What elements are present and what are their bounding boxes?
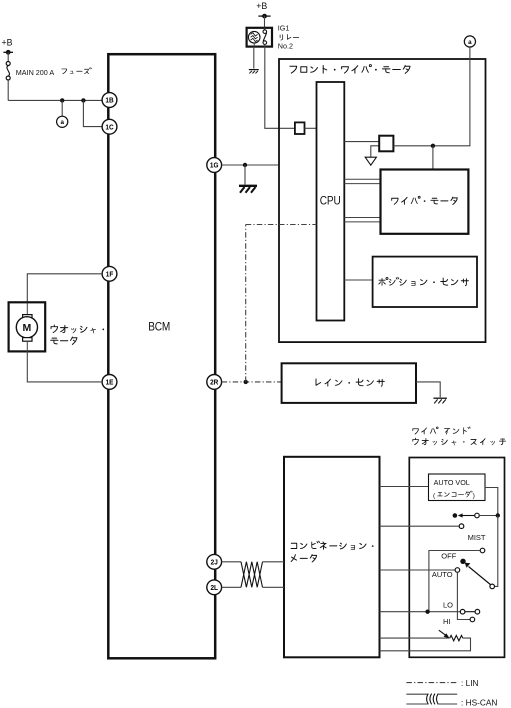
svg-text:1G: 1G xyxy=(210,162,219,169)
pin 1C xyxy=(102,119,117,134)
svg-text:2J: 2J xyxy=(211,559,218,566)
wire (AUTO to HI) xyxy=(457,572,470,619)
relay IG1 No.2 xyxy=(247,28,272,47)
svg-text:AUTO: AUTO xyxy=(432,570,453,579)
front wiper motor box xyxy=(279,59,486,342)
svg-text:HI: HI xyxy=(443,617,451,626)
svg-text:M: M xyxy=(23,322,32,334)
wire (to wiper motor) xyxy=(432,146,434,170)
pin 2J xyxy=(207,554,222,569)
svg-text:2R: 2R xyxy=(210,379,218,386)
wire (motor to 1E) xyxy=(26,341,28,351)
washer motor box xyxy=(9,302,46,351)
driver square xyxy=(379,136,393,152)
position sensor box xyxy=(373,257,477,307)
svg-text:1F: 1F xyxy=(106,271,114,278)
legend LIN xyxy=(406,682,456,684)
wire (CPU to position sensor) xyxy=(344,279,372,281)
LIN wire (2R to rain sensor, dash-dot) xyxy=(222,381,282,383)
combination meter box xyxy=(284,457,380,658)
svg-text:1C: 1C xyxy=(105,124,113,131)
CPU box xyxy=(317,82,345,321)
pin 1E xyxy=(102,375,117,390)
AUTO VOL encoder box xyxy=(429,474,486,501)
wire xyxy=(61,100,63,116)
rotary switch common + lever xyxy=(460,559,465,564)
wire xyxy=(7,80,9,100)
pin 1G xyxy=(207,158,222,173)
wire (bus down to lever) xyxy=(495,516,498,587)
fuse MAIN 200 A xyxy=(6,62,10,66)
switch box xyxy=(409,458,504,658)
wire (CPU to driver square) xyxy=(344,141,379,143)
node a (top right) xyxy=(464,36,475,47)
pin 1F xyxy=(102,266,117,281)
wire xyxy=(264,16,266,28)
connector square (relay input) xyxy=(295,122,305,134)
svg-text:1B: 1B xyxy=(105,97,113,104)
ground (relay coil) xyxy=(249,69,259,71)
wire xyxy=(244,165,246,185)
svg-text:CPU: CPU xyxy=(320,195,341,208)
MIST momentary switch xyxy=(453,513,458,518)
svg-text:a: a xyxy=(468,39,472,46)
wire (rain sensor ground) xyxy=(416,382,440,397)
wire (AUTO VOL to bus) xyxy=(485,488,498,516)
svg-text:a: a xyxy=(60,119,64,126)
node junction dots xyxy=(60,98,64,102)
svg-text:AUTO VOL: AUTO VOL xyxy=(434,478,470,487)
svg-text:MAIN 200 A: MAIN 200 A xyxy=(16,68,55,77)
wire (1F to washer motor) xyxy=(27,274,102,303)
svg-text:+B: +B xyxy=(2,38,13,48)
svg-text:MIST: MIST xyxy=(468,533,486,542)
node junction xyxy=(243,163,247,167)
svg-text:OFF: OFF xyxy=(441,552,456,561)
pin 1B xyxy=(102,93,117,108)
wire (coil to ground) xyxy=(253,43,255,46)
svg-text:BCM: BCM xyxy=(148,321,170,334)
wire xyxy=(305,127,317,129)
node junction xyxy=(244,380,248,384)
svg-text:1E: 1E xyxy=(106,379,114,386)
rain sensor box xyxy=(282,363,416,403)
bus pair 2 xyxy=(344,217,380,219)
HI contact xyxy=(470,617,475,622)
svg-text:: HS-CAN: : HS-CAN xyxy=(461,698,497,708)
LO row xyxy=(380,611,461,613)
wire (relay switch output) xyxy=(265,44,295,128)
BCM box xyxy=(108,54,215,658)
wire (meter to AUTO VOL) xyxy=(380,486,429,488)
wire (meter to MIST contact) xyxy=(380,525,460,527)
ground (rain sensor) xyxy=(433,397,447,399)
ground (1G) xyxy=(239,185,257,187)
front wiper motor label xyxy=(290,65,410,74)
svg-text:: LIN: : LIN xyxy=(461,678,479,688)
arrow stub xyxy=(371,146,379,157)
legend HS-CAN xyxy=(406,693,427,695)
wire xyxy=(393,145,433,147)
AUTO contact xyxy=(380,569,456,571)
svg-text:LO: LO xyxy=(443,601,453,610)
OFF contact xyxy=(480,548,485,553)
switch title xyxy=(413,427,470,434)
wire xyxy=(83,100,102,126)
svg-text:+B: +B xyxy=(256,1,267,11)
svg-text:No.2: No.2 xyxy=(278,41,293,50)
washer variable resistor xyxy=(380,637,450,639)
HS-CAN twisted pair (2J/2L to meter) xyxy=(222,561,241,563)
washer motor label xyxy=(51,325,104,333)
motor M xyxy=(26,303,28,315)
wire (1G to front wiper box) xyxy=(222,164,279,166)
pin 2L xyxy=(207,580,222,595)
pin 2R xyxy=(207,375,222,390)
svg-text:IG1: IG1 xyxy=(278,24,290,33)
svg-text:2L: 2L xyxy=(210,585,218,592)
node a (left) xyxy=(57,116,68,127)
LIN wire (up to CPU) xyxy=(245,225,247,382)
wire (a down to motor feed) xyxy=(433,47,470,146)
bus pair (CPU-motor) xyxy=(344,178,380,180)
wiper motor box xyxy=(381,170,469,234)
node junction xyxy=(425,610,429,614)
node junction xyxy=(431,144,435,148)
wire xyxy=(7,52,9,61)
svg-text:): ) xyxy=(473,493,475,500)
node junction xyxy=(496,513,500,517)
